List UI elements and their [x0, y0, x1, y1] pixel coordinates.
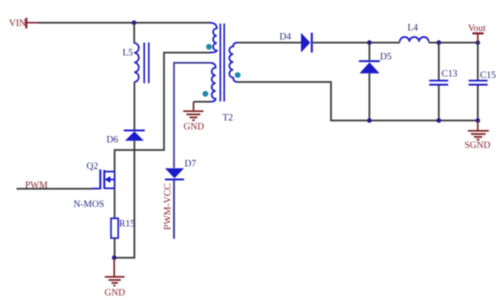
svg-text:L5: L5 — [123, 49, 134, 59]
wire secondary top to D4 — [238, 42, 302, 44]
svg-text:R15: R15 — [119, 220, 135, 230]
svg-text:D5: D5 — [380, 53, 392, 63]
transformer T2 secondary winding — [229, 43, 237, 82]
wire winding1 bottom to MOSFET drain — [115, 53, 209, 172]
diode D4 — [280, 33, 313, 53]
wire D5 to bottom rail — [368, 73, 370, 120]
svg-text:SGND: SGND — [465, 141, 491, 151]
wire junction to L5 — [133, 23, 135, 44]
transformer T2 winding 2 (aux) — [210, 63, 216, 102]
ground SGND — [465, 121, 491, 152]
wire D6 down to bottom junction — [114, 141, 134, 258]
node SGND junction — [476, 118, 481, 123]
svg-text:L4: L4 — [408, 24, 419, 34]
wire winding2 top to PWM-VCC net — [174, 63, 210, 168]
wire source to R15 — [114, 188, 116, 218]
wire winding2 bottom to GND — [194, 101, 211, 103]
node C13 bottom junction — [437, 118, 442, 123]
polarity dot winding 1 — [206, 44, 212, 50]
wire R15 to bottom junction — [114, 238, 116, 258]
ground GND (bottom) — [105, 258, 126, 299]
polarity dot winding 2 — [203, 91, 209, 97]
transformer T2 winding 1 (primary) — [209, 23, 217, 53]
wire D4 to L4 — [313, 42, 400, 44]
node bottom junction — [112, 255, 117, 260]
ground GND (aux winding) — [183, 102, 204, 133]
wire L5 to D6 — [133, 82, 135, 130]
svg-text:D6: D6 — [107, 136, 119, 146]
diode D5 — [359, 53, 392, 74]
svg-text:C13: C13 — [442, 70, 458, 80]
inductor L4 — [400, 24, 429, 42]
port Vout — [468, 24, 486, 42]
transistor Q2 N-MOS — [74, 162, 115, 210]
wire C15 branch — [477, 43, 479, 80]
capacitor C13 — [429, 70, 457, 85]
wire junction to D5 — [368, 43, 370, 61]
wire L4 right to Vout corner — [429, 42, 478, 44]
inductor L5 — [123, 43, 149, 84]
node D5 bottom junction — [367, 118, 372, 123]
wire VIN top rail — [38, 22, 210, 24]
svg-text:PWM: PWM — [25, 181, 48, 191]
svg-text:N-MOS: N-MOS — [74, 200, 105, 210]
wire D7 to PWM-VCC net — [173, 180, 175, 238]
node C13 top junction — [437, 40, 442, 45]
svg-text:D4: D4 — [280, 33, 292, 43]
diode D7 — [165, 160, 196, 181]
polarity dot secondary — [235, 72, 241, 78]
node D5 top junction — [367, 40, 372, 45]
svg-text:PWM-VCC: PWM-VCC — [163, 183, 174, 230]
wire C13 branch — [438, 43, 440, 80]
node Vout junction — [476, 40, 481, 45]
diode D6 — [107, 130, 145, 146]
wire secondary bottom return — [238, 82, 478, 121]
svg-text:GND: GND — [184, 122, 205, 132]
svg-text:T2: T2 — [223, 114, 234, 124]
svg-text:GND: GND — [105, 289, 126, 299]
svg-text:Q2: Q2 — [87, 162, 99, 172]
node junction top rail — [132, 20, 137, 25]
svg-text:C15: C15 — [480, 71, 496, 81]
svg-text:D7: D7 — [185, 160, 197, 170]
port VIN — [9, 18, 38, 29]
capacitor C15 — [469, 71, 496, 85]
wire PWM to gate — [17, 188, 93, 190]
svg-text:VIN: VIN — [9, 19, 26, 29]
transformer T2 core — [220, 24, 233, 124]
resistor R15 — [111, 218, 135, 238]
